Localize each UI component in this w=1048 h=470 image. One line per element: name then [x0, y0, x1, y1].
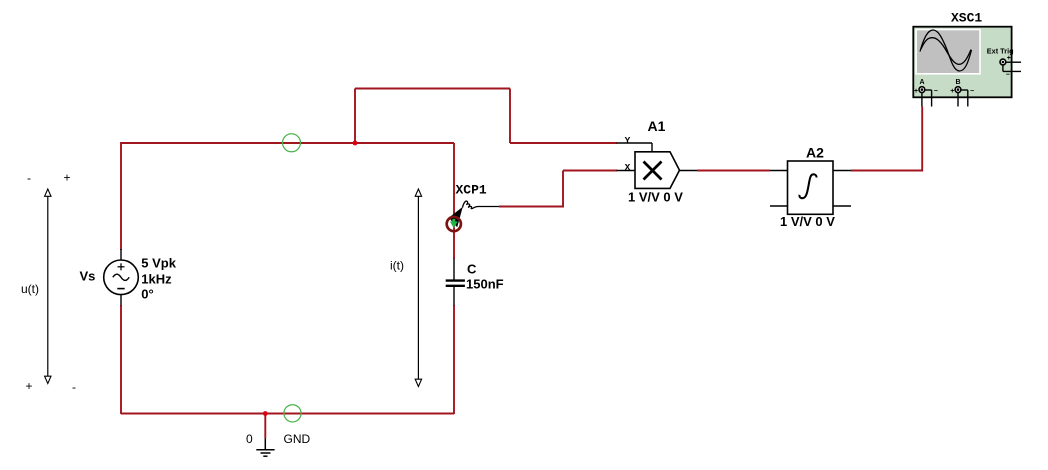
- svg-text:Vs: Vs: [80, 269, 96, 284]
- wire to A1 X input: [563, 170, 617, 172]
- wire bypass vertical left: [354, 89, 356, 144]
- wire left vertical upper: [120, 142, 122, 250]
- A2 input pin: [770, 170, 788, 172]
- node indicator green circle bottom: [284, 405, 301, 422]
- wire right vertical upper: [453, 143, 455, 259]
- integrator A2: [788, 161, 834, 214]
- wire A2 output vertical to scope: [921, 107, 923, 172]
- node indicator green circle top: [283, 134, 301, 152]
- A2 lower left pin: [770, 205, 788, 207]
- multiplier A1: [635, 152, 680, 189]
- svg-text:1kHz: 1kHz: [141, 272, 172, 287]
- svg-text:-: -: [72, 380, 76, 394]
- wire bypass vertical right: [509, 89, 511, 144]
- svg-text:+: +: [64, 171, 71, 185]
- A2 output pin: [833, 170, 851, 172]
- scope channel A terminal: [919, 87, 932, 107]
- svg-text:XCP1: XCP1: [456, 183, 487, 198]
- svg-text:B: B: [956, 79, 961, 86]
- scope channel B terminal: [955, 87, 968, 107]
- capacitor C1: [446, 259, 465, 306]
- svg-text:0: 0: [246, 432, 253, 446]
- current probe XCP1: [447, 201, 499, 231]
- svg-text:1 V/V 0 V: 1 V/V 0 V: [628, 190, 683, 205]
- svg-text:X: X: [625, 162, 631, 173]
- A1 X input pin: [617, 170, 636, 172]
- svg-text:+: +: [26, 379, 33, 393]
- svg-text:+: +: [950, 88, 954, 95]
- wire A2 output horizontal: [851, 170, 922, 172]
- A1 output pin: [679, 170, 697, 172]
- svg-text:u(t): u(t): [21, 282, 39, 296]
- wire top horizontal: [121, 142, 454, 144]
- svg-text:A2: A2: [806, 145, 824, 161]
- wire probe out horizontal: [499, 206, 564, 208]
- svg-text:Ext Trig: Ext Trig: [987, 46, 1014, 55]
- svg-text:−: −: [934, 88, 938, 95]
- svg-text:i(t): i(t): [390, 259, 404, 273]
- svg-text:0°: 0°: [141, 287, 153, 302]
- wire right vertical lower: [453, 305, 455, 414]
- A1 Y input pin: [617, 143, 653, 152]
- voltage arrow u(t): [45, 189, 51, 384]
- current arrow i(t): [415, 189, 421, 387]
- svg-text:XSC1: XSC1: [951, 11, 982, 26]
- junction dot top: [353, 141, 358, 146]
- svg-text:−: −: [1006, 72, 1010, 79]
- svg-text:Y: Y: [625, 135, 631, 146]
- wire A1 output to A2: [697, 170, 770, 172]
- svg-text:150nF: 150nF: [466, 277, 504, 292]
- wire to A1 Y input: [510, 142, 617, 144]
- wire bypass top horizontal: [355, 88, 510, 90]
- A2 lower right pin: [833, 205, 851, 207]
- voltage source Vs: [104, 249, 139, 306]
- svg-text:GND: GND: [284, 432, 311, 446]
- svg-text:5 Vpk: 5 Vpk: [141, 256, 176, 271]
- wire probe out vertical: [562, 171, 564, 207]
- oscilloscope XSC1: [913, 27, 1011, 98]
- svg-text:-: -: [27, 171, 31, 185]
- svg-text:C: C: [467, 262, 477, 277]
- svg-text:A1: A1: [648, 118, 666, 134]
- svg-text:A: A: [920, 79, 925, 86]
- wire left vertical lower: [120, 305, 122, 414]
- svg-text:+: +: [914, 88, 918, 95]
- wire bottom horizontal: [121, 413, 454, 415]
- svg-text:1 V/V 0 V: 1 V/V 0 V: [780, 214, 835, 229]
- scope ext trig terminal: [1000, 59, 1021, 71]
- wire ground stub: [264, 414, 266, 439]
- junction dot bottom: [263, 411, 268, 416]
- ground: [256, 439, 274, 457]
- svg-text:−: −: [970, 88, 974, 95]
- svg-text:+: +: [1007, 55, 1011, 62]
